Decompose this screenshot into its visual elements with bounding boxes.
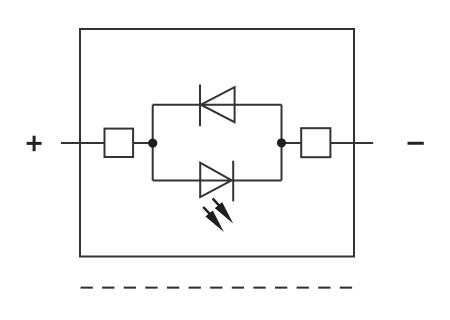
minus terminal label: [408, 142, 424, 145]
dashed separator line: [81, 287, 353, 289]
wire top branch: [153, 104, 282, 106]
wire right branch vertical: [281, 105, 283, 181]
wire left lead: [61, 142, 153, 144]
LED D2 triangle (points right): [200, 163, 232, 197]
diode D1 triangle (points left): [201, 87, 235, 122]
terminal block left (square): [105, 129, 134, 157]
module outline box: [80, 29, 354, 257]
diode D1 cathode bar: [199, 85, 201, 127]
LED emission arrow 1 (upper right): [213, 199, 234, 224]
junction node left: [148, 139, 157, 148]
LED D2 cathode bar: [232, 161, 234, 202]
wire bottom branch: [153, 180, 282, 182]
wire left branch vertical: [152, 105, 154, 181]
junction node right: [277, 138, 286, 147]
terminal block right (square): [301, 128, 330, 157]
plus terminal label: [27, 136, 42, 152]
wire right lead: [282, 142, 374, 144]
LED emission arrow 2 (lower left): [203, 207, 224, 232]
